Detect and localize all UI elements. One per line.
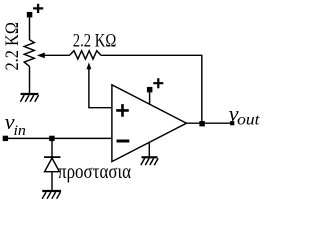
output wire op-amp apex to vout terminal [187,122,232,124]
vin terminal square [3,136,8,141]
op-amp V+ pin wire [149,92,151,104]
plus sign (V+ of R1) [33,4,43,13]
diode D1 triangle (protection diode) [45,158,60,172]
svg-text:2.2 KΩ: 2.2 KΩ [2,22,23,71]
label vin [5,109,26,139]
vout terminal square [230,121,234,125]
ground symbol at op-amp V- [141,157,158,165]
potentiometer R2 2.2 KOhm (horizontal body) [70,51,101,59]
op-amp + input label [116,104,129,117]
op-amp - input label [117,140,130,143]
svg-text:in: in [14,123,26,139]
svg-text:2.2 KΩ: 2.2 KΩ [73,31,117,52]
wire R1 bottom to ground [29,66,31,93]
wire junction down to diode cathode [51,141,53,157]
wire R2 wiper to op-amp noninverting input [89,69,112,108]
ground symbol below R1 [20,94,38,102]
wire R1 wiper to R2 left [44,54,71,56]
svg-text:προστασια: προστασια [58,161,131,183]
wire diode anode to ground [51,172,53,191]
node: vin/diode junction [49,136,54,141]
R1 wiper arrow [37,53,45,59]
op-amp V+ plus sign [153,78,163,88]
op-amp V+ pin square [147,87,153,93]
op-amp V- pin wire [148,143,150,157]
power supply terminal square (V+ of R1) [27,12,33,18]
node: output/feedback junction [199,121,204,126]
potentiometer R1 2.2 KOhm (vertical body) [24,40,34,67]
diode D1 cathode bar [44,156,60,158]
wire V+ terminal to R1 top [29,17,31,40]
label vout [229,101,260,128]
ground symbol below diode [42,191,61,199]
wire vin to op-amp inverting input [5,137,112,139]
R2 wiper arrow [87,62,92,69]
svg-text:out: out [237,111,260,128]
feedback wire R2 right to output node [101,55,202,123]
op-amp U1 triangle [112,85,187,162]
